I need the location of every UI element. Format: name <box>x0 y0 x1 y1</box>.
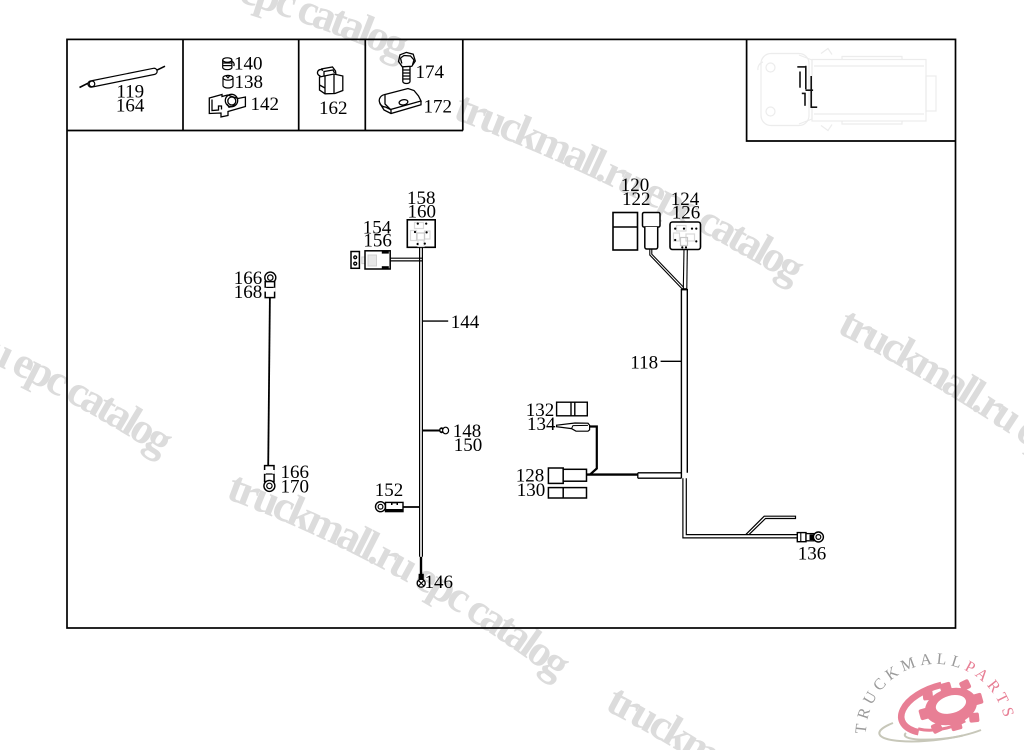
connector 132 <box>557 402 588 416</box>
cable 166 <box>268 298 270 466</box>
svg-text:126: 126 <box>672 202 701 223</box>
connector box 124/126 <box>670 222 701 250</box>
part 138 icon (small cylinder) <box>223 75 233 88</box>
wire 152 to harness <box>403 506 420 508</box>
svg-text:142: 142 <box>251 94 280 115</box>
connector 120/122 <box>613 213 638 251</box>
svg-text:146: 146 <box>425 572 454 593</box>
harness 144 bottom single wire <box>420 557 422 574</box>
svg-text:156: 156 <box>363 231 392 252</box>
leader 118 <box>661 360 682 362</box>
harness 118 sleeve <box>681 289 687 478</box>
terminal 146 <box>417 574 425 587</box>
leader 144 <box>422 320 448 322</box>
part 174 bolt <box>399 52 416 83</box>
truck top-view outline (light) <box>758 49 936 131</box>
part 142 icon (cable clamp bracket) <box>209 94 245 117</box>
svg-text:152: 152 <box>375 480 404 501</box>
ring terminal 136 <box>797 532 823 542</box>
logo swoosh gray <box>879 723 981 741</box>
branch wire 148/150 <box>422 430 440 432</box>
junction sleeve horizontal <box>638 473 682 478</box>
dark wire 128 to junction <box>587 473 638 475</box>
svg-text:138: 138 <box>235 72 264 93</box>
svg-text:122: 122 <box>622 189 651 210</box>
harness 144 main vertical wire <box>420 247 423 557</box>
harness below junction <box>683 478 797 538</box>
wire from 124/126 down <box>683 250 687 290</box>
logo gear <box>913 674 989 739</box>
part 119/164 rod <box>80 66 166 87</box>
terminal 166/170 bottom <box>264 466 275 492</box>
connector 152 with ring <box>376 502 404 512</box>
dark wire 134 to junction <box>590 427 597 475</box>
top-left parts cells <box>67 130 463 132</box>
connector 154/156 2-pin part <box>351 252 359 269</box>
svg-text:144: 144 <box>451 312 480 333</box>
connector box 158/160 <box>407 220 435 248</box>
svg-text:118: 118 <box>630 352 658 373</box>
svg-text:136: 136 <box>798 544 827 565</box>
svg-text:174: 174 <box>416 62 445 83</box>
main frame <box>67 39 956 628</box>
svg-text:170: 170 <box>281 477 310 498</box>
svg-text:150: 150 <box>454 435 483 456</box>
wire stub from barrel <box>650 250 684 289</box>
part 140 icon (small sleeve) <box>223 58 234 70</box>
part 172 clamp <box>379 89 421 114</box>
svg-text:168: 168 <box>234 282 262 303</box>
connector 130 <box>548 488 586 498</box>
harness location overlay (dark) in truck box <box>797 66 817 108</box>
grommet 148/150 <box>439 427 449 434</box>
wire from 154/156 to harness 144 <box>390 258 422 261</box>
svg-text:134: 134 <box>527 414 556 435</box>
logo pink crescent <box>901 685 965 732</box>
truck inset box <box>747 39 956 141</box>
svg-text:172: 172 <box>424 97 453 118</box>
barrel connector (wire to 118) <box>643 213 661 250</box>
branch wire to open end <box>746 516 796 534</box>
connector 154/156 body <box>362 251 390 269</box>
connector 128 <box>548 468 586 483</box>
svg-text:130: 130 <box>517 480 546 501</box>
part 162 icon (clip) <box>317 67 342 94</box>
ring terminal 166/168 <box>264 272 276 298</box>
svg-text:164: 164 <box>116 96 145 117</box>
blade terminal 134 <box>557 423 590 431</box>
svg-text:162: 162 <box>319 98 348 119</box>
